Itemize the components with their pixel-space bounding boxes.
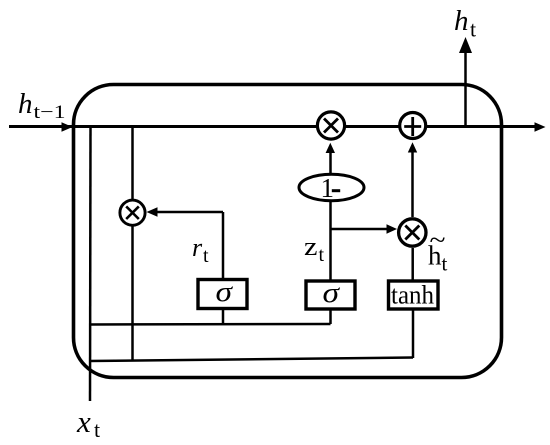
svg-text:t−1: t−1 [34,102,66,123]
wire: z line from sigma_z up to ellipse [329,200,332,280]
svg-text:t: t [442,252,448,276]
multiply node reset gate [120,200,145,225]
wire: sigma_z bottom stub [329,310,332,324]
svg-text:h: h [454,5,469,37]
svg-text:t: t [470,17,476,42]
arrow output right [535,122,546,132]
plus node on main line [400,113,426,139]
sigma box z [306,281,355,309]
wire: below reset multiply down to line B [131,226,134,361]
wire: x_t vertical [89,127,92,401]
svg-text:h: h [18,88,33,120]
sigma box r [198,280,247,309]
wire: line B (lowest bus) [89,358,413,362]
wire: main h line left-to-right [9,125,537,128]
svg-text:t: t [319,244,325,266]
svg-text:t: t [203,245,209,267]
svg-text:1: 1 [321,173,335,203]
svg-text:x: x [76,404,91,439]
1- ellipse [299,174,364,200]
svg-text:σ: σ [216,277,234,308]
wire: multiply 2 bottom to tanh [411,248,414,280]
wire: h_t output vertical with arrow [464,50,467,127]
wire: h branch vertical to reset multiply [131,127,134,200]
svg-text:z: z [304,232,318,261]
tanh box [389,281,439,309]
arrow into box (h_t-1 input) [62,122,73,132]
wire: line A (lower bus) [89,323,331,326]
multiply node (1-z) on main line [317,112,344,139]
svg-text:~: ~ [430,225,446,255]
wire: arrow from sigma_r into reset multiply [155,211,223,214]
wire: tanh bottom stub to line B [412,310,415,358]
svg-text:tanh: tanh [391,281,434,310]
wire: arrow from ellipse top into multiply 1 [329,150,332,176]
wire: arrow from z line into multiply 2 [331,228,389,231]
svg-text:σ: σ [323,278,341,309]
wire: arrow from multiply 2 up into plus [411,150,414,217]
svg-text:r: r [192,233,203,262]
svg-text:t: t [94,417,100,442]
multiply node z*h~ [399,219,426,246]
GRU cell rounded box [74,85,502,378]
wire: sigma_r bottom stub [222,308,225,324]
